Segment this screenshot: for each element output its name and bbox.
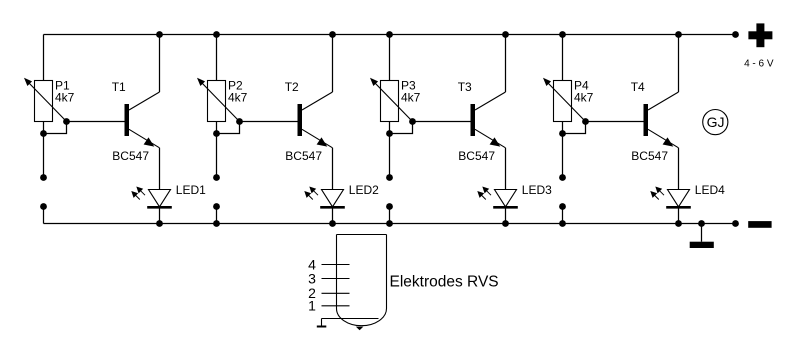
svg-text:4k7: 4k7 [574, 90, 594, 104]
wire T3 emitter down to LED3 [505, 148, 507, 190]
node electrode terminal upper, level 2 [213, 174, 220, 181]
node top rail junction at P2 [213, 31, 220, 38]
node bottom rail junction at ground bar [698, 220, 705, 227]
svg-text:BC547: BC547 [631, 149, 668, 163]
node bottom rail right end terminal [732, 220, 739, 227]
node top rail junction at T4 collector [675, 31, 682, 38]
node electrode terminal upper, level 4 [559, 174, 566, 181]
wire wiper of P3 to base of T3 [413, 121, 471, 123]
node top rail junction at T1 collector [156, 31, 163, 38]
potentiometer P1 4k7 [24, 78, 67, 122]
wire LED2 cathode to ground rail [332, 207, 334, 223]
wire P2 top feed from rail [216, 35, 218, 81]
node top rail junction at P3 [386, 31, 393, 38]
logo GJ [703, 110, 728, 135]
potentiometer P3 4k7 [370, 78, 413, 122]
wire electrode lower terminal to ground rail [389, 207, 391, 224]
svg-text:LED2: LED2 [349, 183, 379, 197]
electrode level 1 tick [322, 305, 350, 307]
potentiometer P2 4k7 [197, 78, 240, 122]
LED LED2 [320, 190, 345, 208]
wire bottom ground rail [44, 223, 736, 225]
node top rail right end terminal [732, 31, 739, 38]
node bottom rail junction below P4 [559, 220, 566, 227]
wire electrode lower terminal to ground rail [216, 207, 218, 224]
svg-text:4 - 6 V: 4 - 6 V [744, 58, 774, 69]
node wiper junction of P4 [582, 118, 589, 125]
node bottom rail junction at LED1 [156, 220, 163, 227]
node junction P2 bottom / wiper tie [213, 130, 220, 137]
svg-text:4k7: 4k7 [228, 90, 248, 104]
transistor T1 BC547 [125, 35, 160, 148]
electrode level 4 tick [322, 264, 350, 266]
wire LED4 cathode to ground rail [678, 207, 680, 223]
potentiometer P4 4k7 [543, 78, 586, 122]
node bottom rail junction below P3 [386, 220, 393, 227]
wire electrode lower terminal to ground rail [562, 207, 564, 224]
node top rail junction at T2 collector [329, 31, 336, 38]
plus supply terminal [748, 23, 772, 47]
LED LED1 [147, 190, 172, 208]
ground terminal bar [690, 224, 714, 249]
wire wiper tie-down to P4 bottom [563, 122, 586, 134]
svg-text:1: 1 [308, 298, 316, 314]
node wiper junction of P2 [236, 118, 243, 125]
wire P4 bottom down to electrode terminal [562, 122, 564, 178]
wire wiper tie-down to P2 bottom [217, 122, 240, 134]
svg-text:Elektrodes RVS: Elektrodes RVS [390, 274, 499, 291]
svg-text:T3: T3 [458, 80, 472, 94]
electrode common bottom lead [322, 318, 379, 320]
probe tip marker [356, 327, 364, 331]
electrode level 2 tick [322, 292, 350, 294]
wire P1 bottom down to electrode terminal [43, 122, 45, 178]
node junction P3 bottom / wiper tie [386, 130, 393, 137]
svg-text:4k7: 4k7 [401, 90, 421, 104]
svg-text:LED3: LED3 [522, 183, 552, 197]
node wiper junction of P3 [409, 118, 416, 125]
node bottom rail junction at LED2 [329, 220, 336, 227]
wire wiper of P2 to base of T2 [240, 121, 298, 123]
node bottom rail junction at LED4 [675, 220, 682, 227]
node electrode terminal lower, ground side [559, 203, 566, 210]
svg-text:GJ: GJ [707, 114, 725, 130]
wire P3 top feed from rail [389, 35, 391, 81]
node electrode terminal lower, ground side [40, 203, 47, 210]
node junction P1 bottom / wiper tie [40, 130, 47, 137]
electrode level 3 tick [322, 278, 350, 280]
svg-text:T2: T2 [285, 80, 299, 94]
svg-text:BC547: BC547 [458, 149, 495, 163]
LED1 light emission arrows [131, 187, 145, 200]
svg-text:BC547: BC547 [112, 149, 149, 163]
svg-text:BC547: BC547 [285, 149, 322, 163]
minus supply terminal [748, 221, 771, 228]
wire wiper tie-down to P1 bottom [44, 122, 67, 134]
wire left vertical from top rail corner down to P1 [43, 35, 45, 81]
svg-text:T1: T1 [112, 80, 126, 94]
node electrode terminal lower, ground side [386, 203, 393, 210]
wire wiper of P1 to base of T1 [67, 121, 125, 123]
transistor T3 BC547 [471, 35, 506, 148]
wire top supply rail [44, 34, 736, 36]
wire T2 emitter down to LED2 [332, 148, 334, 190]
wire wiper tie-down to P3 bottom [390, 122, 413, 134]
node wiper junction of P1 [63, 118, 70, 125]
node top rail junction at T3 collector [502, 31, 509, 38]
LED2 light emission arrows [304, 187, 318, 200]
node electrode terminal upper, level 1 [40, 174, 47, 181]
wire electrode lower terminal to ground rail [43, 207, 45, 224]
node electrode terminal lower, ground side [213, 203, 220, 210]
wire LED1 cathode to ground rail [159, 207, 161, 223]
transistor T4 BC547 [644, 35, 679, 148]
wire wiper of P4 to base of T4 [586, 121, 644, 123]
LED3 light emission arrows [477, 187, 491, 200]
wire T1 emitter down to LED1 [159, 148, 161, 190]
transistor T2 BC547 [298, 35, 333, 148]
svg-text:T4: T4 [631, 80, 645, 94]
node bottom rail junction below P2 [213, 220, 220, 227]
electrode probe body (tube) [337, 235, 387, 326]
svg-text:LED4: LED4 [695, 183, 725, 197]
wire P4 top feed from rail [562, 35, 564, 81]
node electrode terminal upper, level 3 [386, 174, 393, 181]
ground stub of probe [317, 319, 327, 327]
node bottom rail junction at LED3 [502, 220, 509, 227]
LED LED3 [493, 190, 518, 208]
svg-text:LED1: LED1 [176, 183, 206, 197]
wire LED3 cathode to ground rail [505, 207, 507, 223]
node top rail junction at P4 [559, 31, 566, 38]
LED LED4 [666, 190, 691, 208]
wire P3 bottom down to electrode terminal [389, 122, 391, 178]
wire P2 bottom down to electrode terminal [216, 122, 218, 178]
node junction P4 bottom / wiper tie [559, 130, 566, 137]
svg-text:3: 3 [308, 270, 316, 286]
svg-text:4k7: 4k7 [55, 90, 75, 104]
wire T4 emitter down to LED4 [678, 148, 680, 190]
LED4 light emission arrows [650, 187, 664, 200]
